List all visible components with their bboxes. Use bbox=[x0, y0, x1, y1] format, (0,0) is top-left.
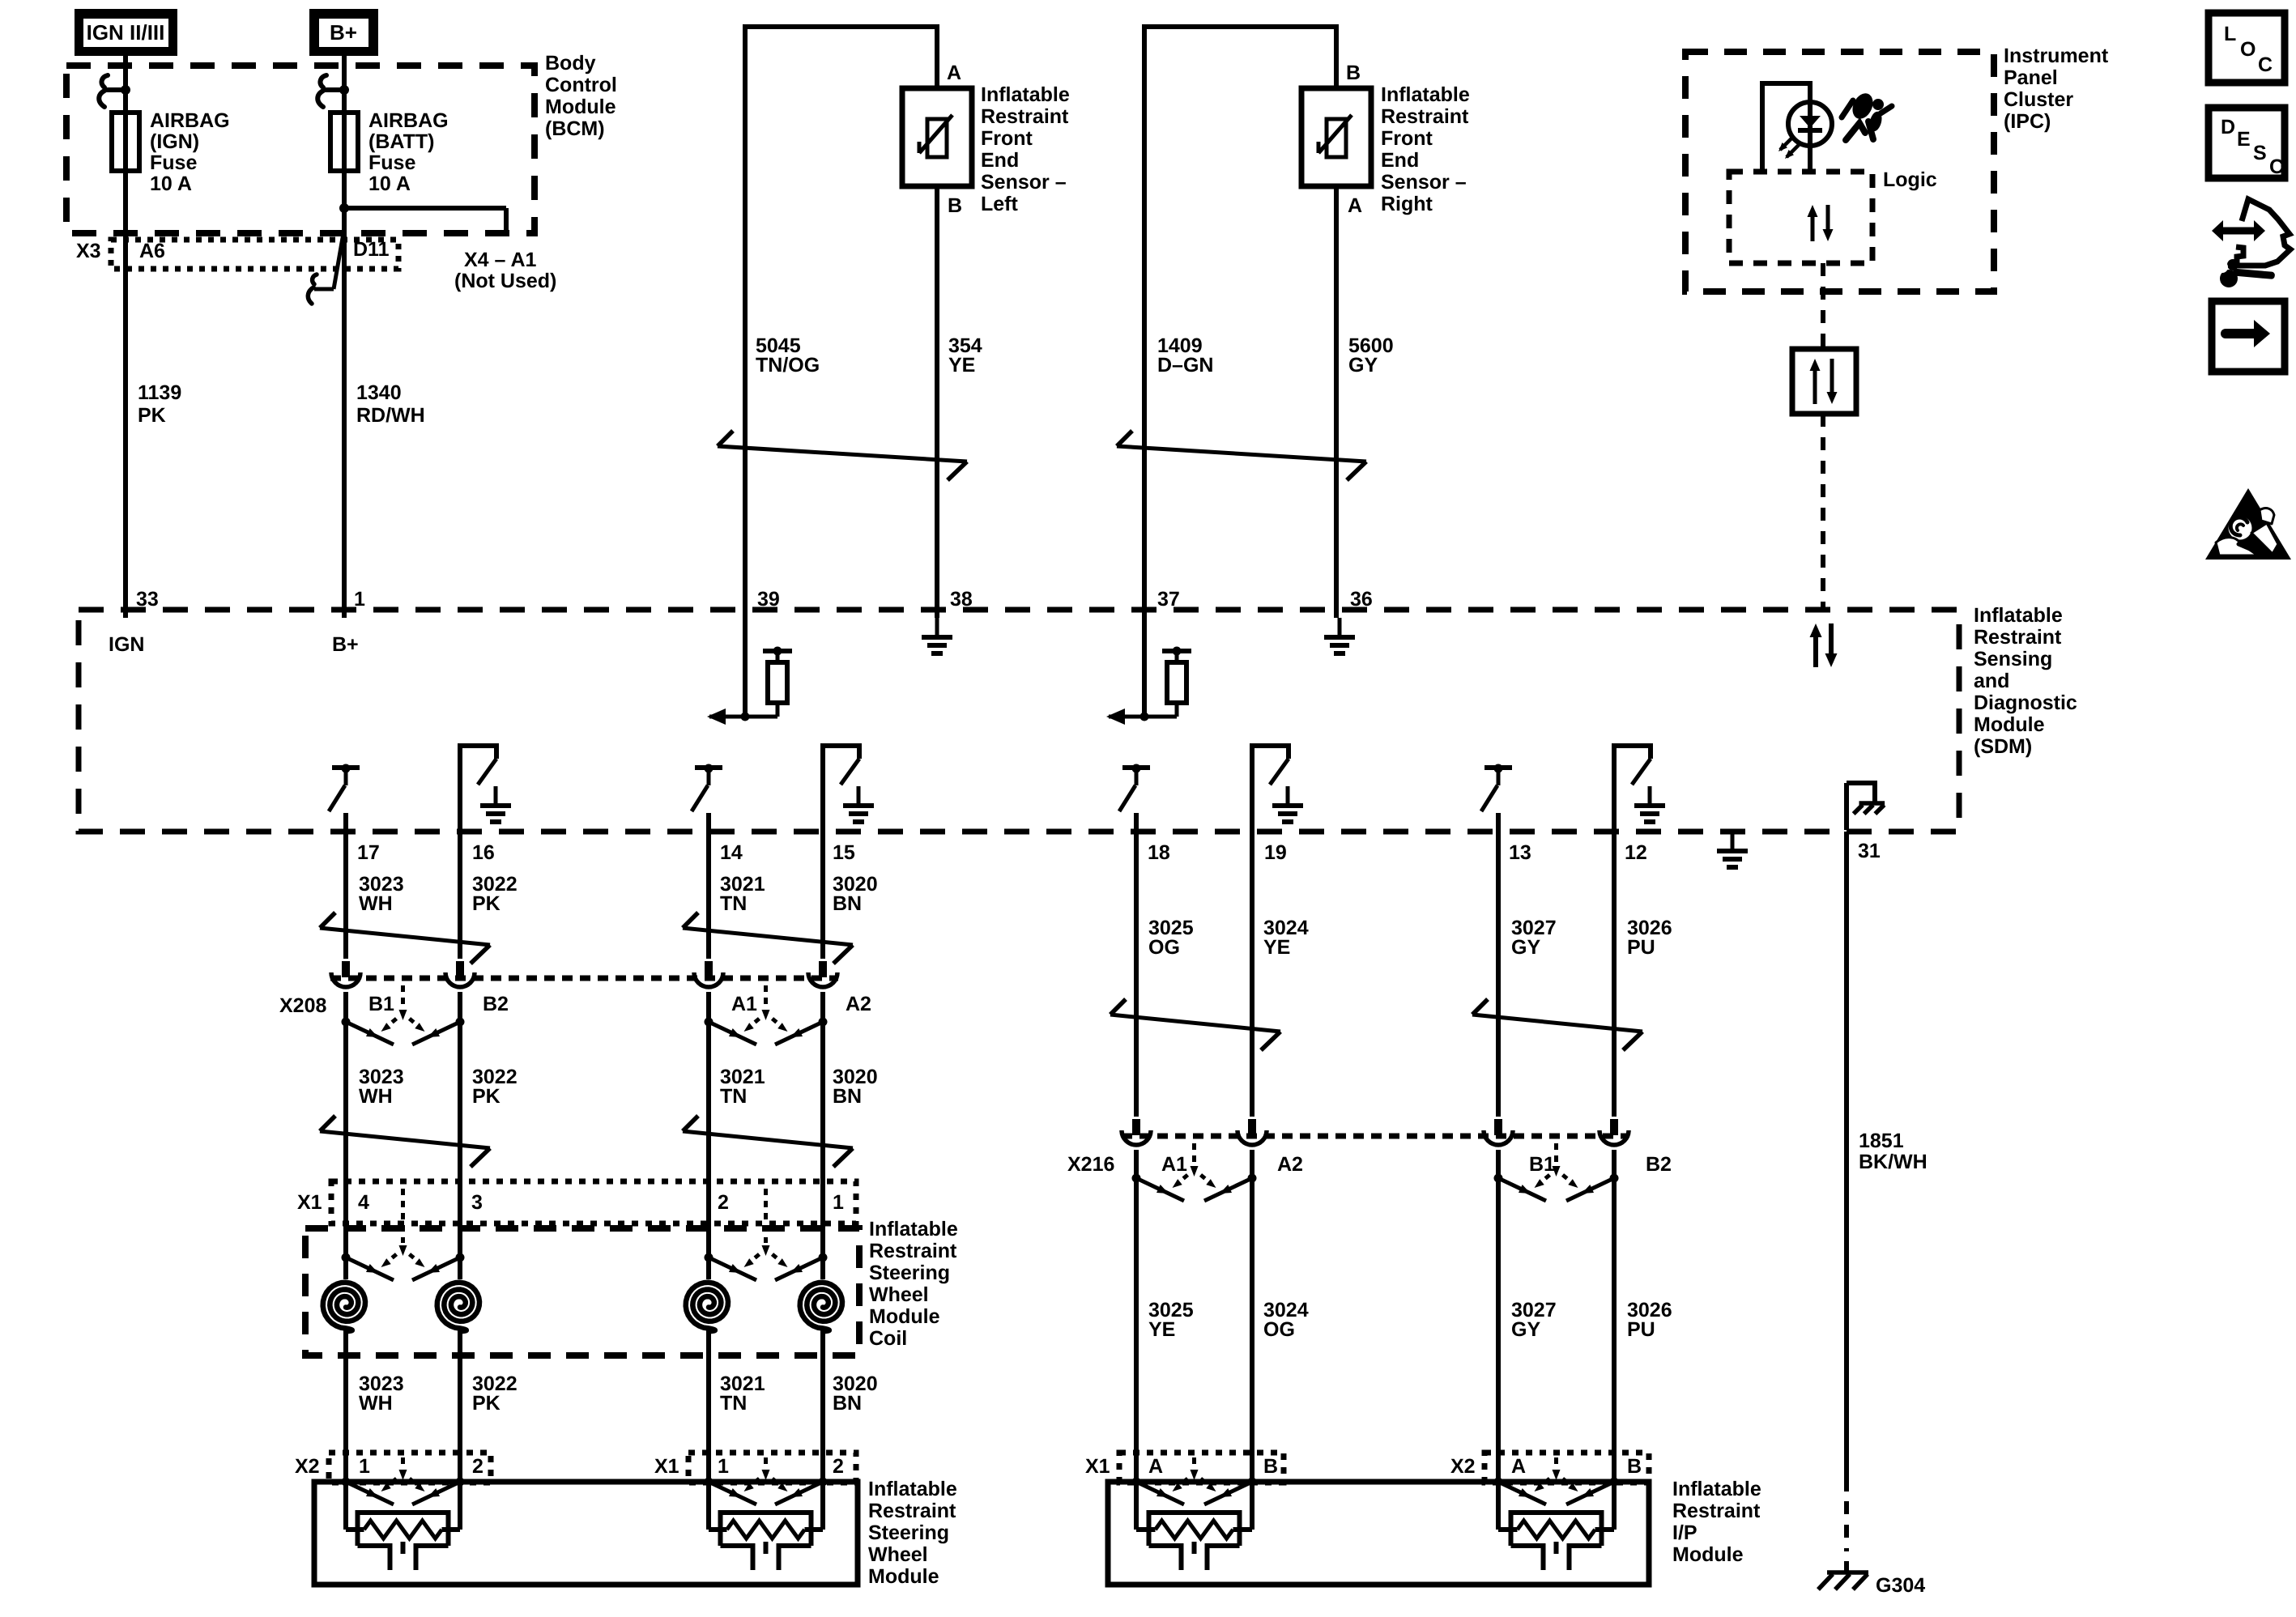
crossover arrows wires 3027/3026 bbox=[1472, 999, 1642, 1050]
svg-text:A: A bbox=[1511, 1455, 1526, 1478]
svg-text:16: 16 bbox=[472, 841, 495, 864]
LED indicator circuit wire bbox=[1760, 83, 1810, 169]
svg-text:Inflatable: Inflatable bbox=[1672, 1478, 1761, 1500]
svg-text:B: B bbox=[948, 194, 962, 217]
svg-text:Module: Module bbox=[868, 1565, 939, 1588]
svg-text:D–GN: D–GN bbox=[1157, 354, 1213, 377]
label X4 - A1 (Not Used) bbox=[454, 249, 556, 292]
connector X208 dashed line bbox=[330, 976, 838, 981]
connector X216 pin A2 bbox=[1237, 1119, 1267, 1145]
svg-text:L: L bbox=[2224, 23, 2236, 45]
svg-text:10 A: 10 A bbox=[150, 172, 192, 195]
steering wheel module box bbox=[314, 1482, 858, 1585]
svg-text:(BATT): (BATT) bbox=[368, 130, 434, 153]
crossover arrows wires 3023/3022 lower bbox=[320, 1116, 490, 1167]
wire 3027 upper bbox=[1496, 813, 1501, 1117]
label wire 3020 BN lower bbox=[833, 1372, 878, 1415]
label pin 15 bbox=[833, 841, 855, 864]
svg-text:Module: Module bbox=[545, 96, 616, 118]
svg-text:Sensor –: Sensor – bbox=[981, 171, 1067, 194]
wire 3020 lower bbox=[820, 1328, 825, 1530]
splice arrows swm left bbox=[342, 1457, 465, 1504]
svg-text:Instrument: Instrument bbox=[2004, 45, 2109, 67]
svg-text:A1: A1 bbox=[731, 993, 757, 1015]
crossover arrows wires 3021/3020 upper bbox=[683, 913, 853, 964]
wire bbox=[343, 813, 348, 959]
svg-text:10 A: 10 A bbox=[368, 172, 411, 195]
svg-text:YE: YE bbox=[948, 354, 975, 377]
label pin 19 bbox=[1264, 841, 1287, 864]
label AIRBAG (BATT) Fuse 10 A bbox=[368, 109, 449, 195]
wire 3021 mid bbox=[706, 992, 711, 1279]
splice arrows X208 right pair bbox=[705, 985, 828, 1045]
connector X216 pin B2 bbox=[1600, 1119, 1629, 1145]
svg-text:Module: Module bbox=[869, 1305, 940, 1328]
label pin B left sensor bbox=[948, 194, 962, 217]
squib steering wheel left bbox=[346, 1482, 460, 1570]
label wire 3025 YE bbox=[1148, 1299, 1194, 1341]
label wire 5600 GY bbox=[1348, 334, 1394, 377]
svg-text:Front: Front bbox=[981, 127, 1033, 150]
svg-text:1: 1 bbox=[354, 588, 365, 611]
svg-text:I/P: I/P bbox=[1672, 1521, 1698, 1544]
SDM dashed box bbox=[79, 610, 1959, 832]
wire 3023 mid bbox=[343, 992, 348, 1279]
svg-text:Inflatable: Inflatable bbox=[1381, 83, 1470, 106]
serial data arrows in logic box bbox=[1808, 205, 1834, 241]
svg-text:17: 17 bbox=[357, 841, 380, 864]
svg-text:IGN: IGN bbox=[109, 633, 144, 656]
svg-text:GY: GY bbox=[1511, 936, 1540, 959]
serial data arrows in SDM bbox=[1810, 623, 1838, 667]
svg-text:39: 39 bbox=[757, 588, 780, 611]
wire 3026 lower bbox=[1612, 1150, 1617, 1530]
label wire 1340 RD/WH bbox=[356, 381, 425, 427]
svg-text:S: S bbox=[2253, 142, 2267, 164]
svg-text:B+: B+ bbox=[332, 633, 359, 656]
label wire 1139 PK bbox=[138, 381, 181, 427]
svg-text:36: 36 bbox=[1350, 588, 1373, 611]
svg-text:A1: A1 bbox=[1161, 1153, 1187, 1176]
svg-text:(IPC): (IPC) bbox=[2004, 110, 2051, 133]
splice arrows coil left pair bbox=[342, 1189, 465, 1280]
warning triangle child seat bbox=[2205, 488, 2291, 560]
svg-text:OG: OG bbox=[1263, 1318, 1295, 1341]
svg-text:1139: 1139 bbox=[138, 381, 181, 404]
resistor and arrow pin 37 bbox=[1106, 618, 1191, 725]
svg-text:Restraint: Restraint bbox=[1381, 105, 1469, 128]
wire bbox=[820, 746, 825, 959]
ground at SDM bottom edge bbox=[1717, 832, 1748, 867]
ground switch pin 15 bbox=[823, 746, 874, 822]
svg-text:X1: X1 bbox=[654, 1455, 679, 1478]
label pin A2 bbox=[846, 993, 871, 1015]
label pin A left sensor bbox=[947, 62, 961, 84]
label IGN bbox=[109, 633, 144, 656]
label pin 1 bbox=[354, 588, 365, 611]
label wire 3027 GY lower bbox=[1511, 1299, 1557, 1341]
svg-text:B: B bbox=[1627, 1455, 1642, 1478]
label X1 swm bbox=[654, 1455, 679, 1478]
label AIRBAG (IGN) Fuse 10 A bbox=[150, 109, 230, 195]
ground at pin 36 bbox=[1324, 618, 1355, 653]
label pin 12 bbox=[1625, 841, 1647, 864]
svg-text:13: 13 bbox=[1509, 841, 1531, 864]
label wire 3022 PK bbox=[472, 873, 518, 915]
wire 3024 lower bbox=[1250, 1150, 1254, 1530]
svg-text:37: 37 bbox=[1157, 588, 1180, 611]
wire 3025 upper bbox=[1134, 813, 1139, 1117]
svg-text:C: C bbox=[2269, 155, 2284, 178]
crossover arrows wires 3025/3024 bbox=[1110, 999, 1280, 1050]
label pin B2 X216 bbox=[1646, 1153, 1672, 1176]
svg-text:BK/WH: BK/WH bbox=[1859, 1151, 1928, 1173]
sensor Inflatable Restraint Front End Sensor - Right bbox=[1301, 88, 1371, 186]
label pin B2 ip bbox=[1627, 1455, 1642, 1478]
label wire 1409 D-GN bbox=[1157, 334, 1213, 377]
hook connection B+ bbox=[317, 75, 349, 107]
label pin B1 X216 bbox=[1529, 1153, 1555, 1176]
svg-text:TN: TN bbox=[720, 892, 747, 915]
ground switch pin 16 bbox=[460, 746, 511, 822]
svg-text:Body: Body bbox=[545, 52, 596, 74]
svg-text:TN/OG: TN/OG bbox=[756, 354, 820, 377]
label X2 ip bbox=[1450, 1455, 1476, 1478]
icon forward arrow box bbox=[2212, 301, 2285, 372]
connector X208 pin B2 bbox=[445, 961, 475, 987]
svg-text:End: End bbox=[1381, 149, 1419, 172]
svg-text:1: 1 bbox=[718, 1455, 729, 1478]
svg-text:GY: GY bbox=[1348, 354, 1378, 377]
svg-text:(BCM): (BCM) bbox=[545, 117, 605, 140]
wire 3023 lower bbox=[343, 1328, 348, 1530]
ground at pin 38 bbox=[922, 618, 952, 653]
airbag warning icon bbox=[1842, 90, 1892, 140]
coil module dashed box bbox=[305, 1228, 859, 1355]
serial data wire IPC to SDM bbox=[1821, 263, 1825, 610]
label wire 3020 BN mid bbox=[833, 1066, 878, 1108]
label X3 bbox=[76, 240, 101, 262]
IP module box bbox=[1108, 1482, 1649, 1585]
svg-text:PK: PK bbox=[472, 892, 501, 915]
wire bbox=[458, 746, 462, 959]
svg-text:Logic: Logic bbox=[1883, 168, 1937, 191]
svg-text:RD/WH: RD/WH bbox=[356, 404, 425, 427]
svg-text:Sensing: Sensing bbox=[1974, 648, 2052, 670]
label pin B ip bbox=[1263, 1455, 1278, 1478]
svg-text:A: A bbox=[1348, 194, 1362, 217]
svg-text:Left: Left bbox=[981, 193, 1019, 215]
svg-text:AIRBAG: AIRBAG bbox=[150, 109, 230, 132]
label wire 3022 PK mid bbox=[472, 1066, 518, 1108]
svg-text:X208: X208 bbox=[279, 994, 326, 1017]
svg-text:Steering: Steering bbox=[869, 1262, 950, 1284]
label right sensor name bbox=[1381, 83, 1470, 215]
wire 3024 upper bbox=[1250, 746, 1254, 1117]
svg-text:X2: X2 bbox=[295, 1455, 320, 1478]
label pin 2 swm bbox=[472, 1455, 483, 1478]
label pin 13 bbox=[1509, 841, 1531, 864]
svg-text:Inflatable: Inflatable bbox=[981, 83, 1070, 106]
svg-text:G304: G304 bbox=[1876, 1574, 1925, 1597]
label wire 3023 WH lower bbox=[359, 1372, 404, 1415]
connector X208 pin A2 bbox=[808, 961, 837, 987]
label pin 38 bbox=[950, 588, 973, 611]
svg-text:2: 2 bbox=[833, 1455, 844, 1478]
svg-text:A2: A2 bbox=[846, 993, 871, 1015]
label X2 swm bbox=[295, 1455, 320, 1478]
label left sensor name bbox=[981, 83, 1070, 215]
svg-text:Module: Module bbox=[1974, 713, 2045, 736]
svg-text:A6: A6 bbox=[139, 240, 165, 262]
svg-text:Fuse: Fuse bbox=[150, 151, 197, 174]
svg-text:O: O bbox=[2240, 38, 2256, 61]
svg-text:2: 2 bbox=[472, 1455, 483, 1478]
label Instrument Panel Cluster (IPC) bbox=[2004, 45, 2109, 133]
squib driver switch pin 17 bbox=[329, 764, 360, 812]
svg-text:Front: Front bbox=[1381, 127, 1433, 150]
svg-text:AIRBAG: AIRBAG bbox=[368, 109, 449, 132]
splice arrows X216 left pair bbox=[1132, 1143, 1257, 1201]
svg-text:GY: GY bbox=[1511, 1318, 1540, 1341]
svg-text:4: 4 bbox=[358, 1191, 369, 1214]
svg-text:B: B bbox=[1346, 62, 1361, 84]
svg-text:Inflatable: Inflatable bbox=[868, 1478, 957, 1500]
svg-text:B1: B1 bbox=[368, 993, 394, 1015]
label pin 2 bbox=[718, 1191, 729, 1214]
label pin 4 bbox=[358, 1191, 369, 1214]
label wire 354 YE bbox=[948, 334, 982, 377]
label pin 16 bbox=[472, 841, 495, 864]
label wire 3024 YE bbox=[1263, 917, 1309, 959]
svg-text:B2: B2 bbox=[1646, 1153, 1672, 1176]
svg-text:(IGN): (IGN) bbox=[150, 130, 199, 153]
icon wiring repair wrench bbox=[2212, 199, 2290, 287]
svg-text:B: B bbox=[1263, 1455, 1278, 1478]
wire 5600 below right sensor bbox=[1334, 186, 1339, 618]
svg-text:E: E bbox=[2237, 128, 2251, 151]
svg-text:A: A bbox=[947, 62, 961, 84]
svg-text:Restraint: Restraint bbox=[1974, 626, 2062, 649]
squib steering wheel right bbox=[709, 1482, 823, 1570]
wire 3027 lower bbox=[1496, 1150, 1501, 1530]
label pin A2 X216 bbox=[1277, 1153, 1303, 1176]
wire 354 below left sensor bbox=[935, 186, 939, 618]
svg-text:Cluster: Cluster bbox=[2004, 88, 2073, 111]
svg-text:Fuse: Fuse bbox=[368, 151, 415, 174]
resistor and arrow pin 39 bbox=[707, 618, 792, 725]
label Inflatable Restraint Sensing and Diagnostic Module (SDM) bbox=[1974, 604, 2077, 758]
label wire 3027 GY bbox=[1511, 917, 1557, 959]
crossover arrows wires 3021/3020 lower bbox=[683, 1116, 853, 1167]
label pin 2b swm bbox=[833, 1455, 844, 1478]
wire 3020 mid bbox=[820, 992, 825, 1279]
svg-text:X1: X1 bbox=[1085, 1455, 1110, 1478]
splice arrows X216 right pair bbox=[1494, 1143, 1619, 1201]
label pin A1 X216 bbox=[1161, 1153, 1187, 1176]
ground switch pin 12 bbox=[1614, 746, 1665, 822]
connector X1 dotted box right bbox=[688, 1453, 856, 1483]
connector X216 dashed line bbox=[1122, 1134, 1629, 1139]
connector X1 dotted box ip bbox=[1119, 1453, 1284, 1483]
squib driver switch pin 14 bbox=[692, 764, 722, 812]
wire to X4-A1 not used bbox=[339, 203, 506, 233]
svg-text:B1: B1 bbox=[1529, 1153, 1555, 1176]
svg-text:PU: PU bbox=[1627, 936, 1655, 959]
wire 1409 hairpin right sensor bbox=[1142, 24, 1336, 618]
label Body Control Module (BCM) bbox=[545, 52, 617, 140]
label X1 ip bbox=[1085, 1455, 1110, 1478]
label Inflatable Restraint Steering Wheel Module Coil bbox=[869, 1218, 958, 1350]
svg-text:PK: PK bbox=[472, 1392, 501, 1415]
svg-text:Control: Control bbox=[545, 74, 617, 96]
splice arrows ip left bbox=[1132, 1457, 1257, 1504]
label pin A1 bbox=[731, 993, 757, 1015]
label wire 3026 PU bbox=[1627, 917, 1672, 959]
svg-text:Wheel: Wheel bbox=[868, 1543, 928, 1566]
svg-text:(SDM): (SDM) bbox=[1974, 735, 2032, 758]
label pin A right sensor bbox=[1348, 194, 1362, 217]
svg-text:1: 1 bbox=[359, 1455, 370, 1478]
label pin 37 bbox=[1157, 588, 1180, 611]
svg-text:(Not Used): (Not Used) bbox=[454, 270, 556, 292]
svg-text:WH: WH bbox=[359, 1085, 393, 1108]
label G304 bbox=[1876, 1574, 1925, 1597]
label wire 1851 BK/WH bbox=[1859, 1130, 1928, 1173]
svg-text:14: 14 bbox=[720, 841, 743, 864]
svg-text:TN: TN bbox=[720, 1392, 747, 1415]
label wire 3020 BN bbox=[833, 873, 878, 915]
squib ip right bbox=[1498, 1482, 1614, 1570]
label pin B1 bbox=[368, 993, 394, 1015]
svg-text:OG: OG bbox=[1148, 936, 1180, 959]
svg-text:BN: BN bbox=[833, 1085, 862, 1108]
connector X2 dotted box left bbox=[329, 1453, 491, 1483]
svg-text:B+: B+ bbox=[330, 20, 357, 45]
label pin 39 bbox=[757, 588, 780, 611]
svg-text:Inflatable: Inflatable bbox=[1974, 604, 2063, 627]
squib driver switch pin 13 bbox=[1481, 764, 1512, 812]
svg-text:15: 15 bbox=[833, 841, 855, 864]
svg-text:WH: WH bbox=[359, 892, 393, 915]
label X208 bbox=[279, 994, 326, 1017]
svg-text:X3: X3 bbox=[76, 240, 101, 262]
label wire 3023 WH mid bbox=[359, 1066, 404, 1108]
icon LOC box bbox=[2209, 13, 2285, 83]
svg-text:1851: 1851 bbox=[1859, 1130, 1904, 1152]
connector X2 dotted box ip bbox=[1485, 1453, 1649, 1483]
svg-text:X2: X2 bbox=[1450, 1455, 1476, 1478]
svg-text:A: A bbox=[1148, 1455, 1163, 1478]
coil spiral wire 3020 bbox=[800, 1283, 842, 1331]
svg-text:BN: BN bbox=[833, 1392, 862, 1415]
label pin 14 bbox=[720, 841, 743, 864]
fuse AIRBAG (BATT) 10A bbox=[330, 113, 358, 171]
ground G304 bbox=[1818, 1572, 1868, 1589]
label pin 31 bbox=[1858, 840, 1881, 862]
svg-text:IGN II/III: IGN II/III bbox=[87, 20, 165, 45]
splice arrows swm right bbox=[705, 1457, 828, 1504]
svg-text:YE: YE bbox=[1263, 936, 1290, 959]
label wire 3026 PU lower bbox=[1627, 1299, 1672, 1341]
svg-text:B2: B2 bbox=[483, 993, 509, 1015]
connector X208 pin A1 bbox=[694, 961, 723, 987]
label wire 3023 WH bbox=[359, 873, 404, 915]
label Inflatable Restraint Steering Wheel Module bbox=[868, 1478, 957, 1588]
label pin 1 swm bbox=[359, 1455, 370, 1478]
BCM dashed box bbox=[66, 66, 535, 233]
svg-text:Module: Module bbox=[1672, 1543, 1744, 1566]
label B+ pin bbox=[332, 633, 359, 656]
connector X208 pin B1 bbox=[331, 961, 360, 987]
svg-text:12: 12 bbox=[1625, 841, 1647, 864]
sensor Inflatable Restraint Front End Sensor - Left bbox=[902, 88, 972, 186]
splice arrows ip right bbox=[1494, 1457, 1619, 1504]
wire 3026 upper bbox=[1612, 746, 1617, 1117]
connector X3 dotted box bbox=[111, 240, 398, 269]
svg-text:Restraint: Restraint bbox=[868, 1500, 956, 1522]
connector X1 dotted box steering column bbox=[331, 1181, 856, 1223]
fuse AIRBAG (IGN) 10A bbox=[112, 113, 139, 171]
label D11 bbox=[353, 238, 390, 261]
label pin 36 bbox=[1350, 588, 1373, 611]
serial data arrows in connector box bbox=[1810, 359, 1838, 404]
label wire 3022 PK lower bbox=[472, 1372, 518, 1415]
splice arrows X208 left pair bbox=[342, 985, 465, 1045]
svg-text:2: 2 bbox=[718, 1191, 729, 1214]
label wire 3025 OG bbox=[1148, 917, 1194, 959]
svg-text:31: 31 bbox=[1858, 840, 1881, 862]
crossover arrows wires 5045/354 bbox=[718, 431, 967, 480]
label pin A ip bbox=[1148, 1455, 1163, 1478]
label wire 3021 TN bbox=[720, 873, 765, 915]
wire 3022 mid bbox=[458, 992, 462, 1279]
label pin B right sensor bbox=[1346, 62, 1361, 84]
IPC dashed box bbox=[1685, 52, 1994, 291]
connector X216 pin A1 bbox=[1122, 1119, 1151, 1145]
svg-text:Sensor –: Sensor – bbox=[1381, 171, 1467, 194]
connector lever D11 bbox=[308, 233, 343, 304]
hook connection IGN bbox=[99, 75, 130, 107]
coil spiral wire 3021 bbox=[686, 1283, 728, 1331]
label Inflatable Restraint I/P Module bbox=[1672, 1478, 1761, 1566]
icon DESC box bbox=[2209, 108, 2285, 178]
svg-text:Right: Right bbox=[1381, 193, 1433, 215]
label pin 17 bbox=[357, 841, 380, 864]
label wire 5045 TN/OG bbox=[756, 334, 820, 377]
svg-text:X1: X1 bbox=[297, 1191, 322, 1214]
label wire 3021 TN mid bbox=[720, 1066, 765, 1108]
power feed box B+ bbox=[309, 9, 378, 56]
crossover arrows wires 1409/5600 bbox=[1117, 431, 1366, 480]
label pin 3 bbox=[471, 1191, 483, 1214]
svg-text:Inflatable: Inflatable bbox=[869, 1218, 958, 1240]
svg-text:A2: A2 bbox=[1277, 1153, 1303, 1176]
svg-text:PK: PK bbox=[138, 404, 166, 427]
ground switch pin 19 bbox=[1252, 746, 1303, 822]
coil spiral wire 3023 bbox=[323, 1283, 365, 1331]
svg-text:PK: PK bbox=[472, 1085, 501, 1108]
svg-text:D11: D11 bbox=[353, 238, 390, 261]
squib driver switch pin 18 bbox=[1119, 764, 1150, 812]
svg-text:3: 3 bbox=[471, 1191, 483, 1214]
connector X216 pin B1 bbox=[1484, 1119, 1513, 1145]
splice arrows coil right pair bbox=[705, 1189, 828, 1280]
wire 3022 lower bbox=[458, 1328, 462, 1530]
wire B+ feed bbox=[342, 56, 347, 618]
wire IGN feed bbox=[123, 56, 128, 618]
svg-text:TN: TN bbox=[720, 1085, 747, 1108]
